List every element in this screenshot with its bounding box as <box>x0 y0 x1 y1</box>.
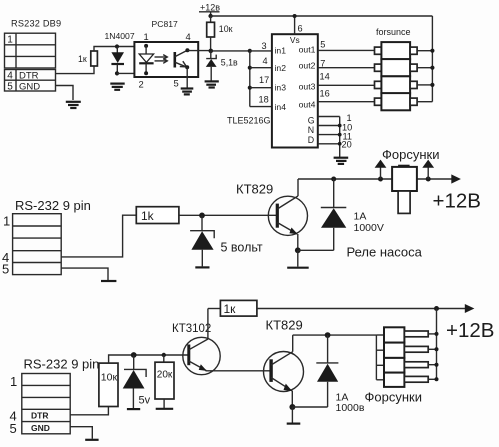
zener VD2 5.1v <box>206 51 217 81</box>
node dot Q3 emitter <box>289 404 295 410</box>
connector X3 RS-232 <box>10 374 71 436</box>
svg-text:2: 2 <box>139 79 144 90</box>
svg-text:10к: 10к <box>219 24 233 34</box>
svg-text:1к: 1к <box>224 302 237 316</box>
node dot rail bottom <box>434 306 439 311</box>
svg-text:out1: out1 <box>299 45 316 55</box>
node dot zener3 <box>199 213 205 219</box>
wire out3 <box>318 84 375 86</box>
svg-text:RS232 DB9: RS232 DB9 <box>11 19 61 29</box>
svg-text:5: 5 <box>2 261 9 276</box>
svg-text:1k: 1k <box>141 209 155 223</box>
wire out1 <box>318 49 375 51</box>
injector bank bottom left bus <box>375 335 377 380</box>
svg-text:1N4007: 1N4007 <box>105 31 135 41</box>
node dot Q1 emitter <box>295 247 301 253</box>
node dot B4 <box>435 377 439 381</box>
arrow up right of relay <box>422 160 434 179</box>
wire in1 stub <box>250 50 272 52</box>
svg-text:4: 4 <box>186 31 191 42</box>
injector F4 <box>375 93 433 110</box>
svg-text:1к: 1к <box>78 54 87 64</box>
wire U1 collector out pin4 <box>187 50 211 52</box>
injector F1 <box>375 42 433 59</box>
wire GND pin5 <box>56 86 74 101</box>
node dot relay left <box>378 177 383 182</box>
svg-text:4: 4 <box>263 56 268 66</box>
diode VD4 1A 1000V <box>321 179 347 250</box>
node dot pin6 <box>293 14 297 18</box>
wire node to PC817 pin2 <box>117 72 146 74</box>
U1 phototransistor <box>175 48 190 69</box>
wire emitter to VD4 <box>298 249 334 251</box>
injector B4 <box>376 373 436 387</box>
wire GND stub1 <box>318 116 340 118</box>
svg-text:PC817: PC817 <box>152 19 178 29</box>
wire R1 top to node <box>94 47 146 52</box>
optocoupler U1 PC817 box <box>134 42 198 77</box>
svg-text:1: 1 <box>347 113 352 123</box>
wire GND stub3 <box>318 134 340 136</box>
wire U1 emitter pin5 <box>186 67 188 87</box>
svg-text:in3: in3 <box>275 82 287 92</box>
resistor R5 20k <box>155 355 174 408</box>
svg-text:1A: 1A <box>354 210 367 222</box>
wire R3 to Q1 base <box>179 214 277 216</box>
ground under VD2 <box>205 81 219 87</box>
U1 LED <box>139 44 153 75</box>
svg-text:in1: in1 <box>275 45 287 55</box>
injector bank top right bus <box>431 16 433 102</box>
wire Q1 emitter ground <box>297 250 299 266</box>
resistor R3 1k <box>136 207 179 224</box>
svg-text:+12В: +12В <box>433 190 481 213</box>
node dot VD4 <box>331 177 336 182</box>
node dot VD5 <box>131 352 137 358</box>
injector B2 <box>376 343 436 358</box>
IC U2 TLE5216G box <box>272 34 318 147</box>
wire in bus <box>249 51 251 107</box>
injector B1 <box>376 327 436 342</box>
svg-text:16: 16 <box>320 89 330 99</box>
resistor 1k <box>91 51 98 66</box>
node dot in2 <box>248 66 252 70</box>
svg-text:N: N <box>308 125 314 135</box>
wire pin6 <box>294 16 296 34</box>
svg-text:1: 1 <box>144 31 149 42</box>
svg-text:G: G <box>308 115 315 125</box>
connector X2 RS-232 <box>2 214 61 277</box>
node dot pin10 <box>338 124 342 128</box>
ground VD5 <box>127 408 140 410</box>
svg-text:5v: 5v <box>139 394 151 406</box>
wire in4 stub <box>250 106 272 108</box>
ground X3 pin5 <box>85 439 98 441</box>
wire DTR to R1 <box>56 66 95 74</box>
node dot B2 <box>435 347 439 351</box>
zener VD5 5v <box>123 355 146 408</box>
svg-text:18: 18 <box>259 95 269 105</box>
svg-text:RS-232 9 pin: RS-232 9 pin <box>15 198 91 213</box>
svg-text:1: 1 <box>10 374 17 389</box>
wire in2 stub <box>250 67 272 69</box>
svg-text:RS-232 9 pin: RS-232 9 pin <box>24 356 100 371</box>
svg-text:in2: in2 <box>275 63 287 73</box>
wire X2 pin4 to R3 <box>61 215 136 257</box>
svg-text:1000в: 1000в <box>336 402 365 414</box>
wire +12 rail middle <box>298 178 459 180</box>
wire +12 rail bottom <box>257 308 473 310</box>
svg-text:DTR: DTR <box>19 71 39 82</box>
svg-text:Форсунки: Форсунки <box>365 389 422 404</box>
node dot D1 anode <box>115 44 119 48</box>
zener VD3 5V <box>190 215 214 266</box>
ground U2 <box>334 158 349 164</box>
node dot zener top <box>209 49 214 54</box>
transistor Q3 KT829 <box>264 335 304 407</box>
svg-text:5: 5 <box>7 81 13 92</box>
svg-text:5 вольт: 5 вольт <box>221 240 263 254</box>
diode VD6 1A 1000v <box>316 335 338 407</box>
wire in3 stub <box>250 87 272 89</box>
ground X2 pin5 <box>101 280 116 282</box>
svg-text:Vs: Vs <box>290 35 300 45</box>
node dot B1 <box>435 332 439 336</box>
resistor R4 10k <box>99 363 118 406</box>
svg-text:КТ829: КТ829 <box>266 317 303 332</box>
ground R5 <box>156 408 174 410</box>
node dot in1 <box>248 49 252 53</box>
node dot F2 <box>430 66 434 70</box>
wire GND stub4 <box>318 143 340 145</box>
svg-text:GND: GND <box>19 81 40 92</box>
arrowhead rail bottom <box>465 304 475 313</box>
svg-text:14: 14 <box>320 72 330 82</box>
svg-text:5: 5 <box>174 78 179 89</box>
wire X2 pin5 to ground <box>61 268 108 280</box>
wire out4 <box>318 101 375 103</box>
svg-text:out2: out2 <box>299 60 316 70</box>
injector F3 <box>375 76 433 93</box>
injector F2 <box>375 59 433 76</box>
wire emitter to VD6 <box>292 406 327 408</box>
wire out2 <box>318 67 375 69</box>
svg-text:in4: in4 <box>275 102 287 112</box>
ground under DB9 <box>66 102 81 108</box>
transistor Q1 KT829 <box>268 179 307 250</box>
relay K1 pump <box>392 165 417 214</box>
svg-text:Реле насоса: Реле насоса <box>347 244 423 259</box>
arrowhead rail middle <box>451 174 461 183</box>
connector X1 RS232 DB9 <box>5 33 56 92</box>
svg-text:Форсунки: Форсунки <box>382 147 439 162</box>
wire GND stub2 <box>318 125 340 127</box>
wire X3 pin4 to R4 <box>70 407 108 415</box>
injector bank bottom right bus <box>436 309 438 380</box>
U1 light arrows <box>155 55 168 64</box>
node dot pin20 <box>338 142 342 146</box>
svg-text:forsunce: forsunce <box>376 27 411 37</box>
node dot D1 cathode <box>115 71 119 75</box>
svg-text:7: 7 <box>320 58 325 68</box>
svg-text:1: 1 <box>3 214 10 229</box>
svg-text:КТ829: КТ829 <box>236 181 273 196</box>
svg-text:10к: 10к <box>101 371 118 383</box>
wire Q3 emitter ground <box>291 407 293 423</box>
wire GND bus <box>339 117 341 158</box>
svg-text:5: 5 <box>320 40 325 50</box>
node dot relay right <box>426 177 431 182</box>
ground U1 pin5 <box>181 89 194 95</box>
svg-text:5,1в: 5,1в <box>221 58 238 68</box>
svg-text:6: 6 <box>298 23 303 33</box>
ground Q1 <box>287 267 309 269</box>
wire X3 pin5 to ground <box>70 427 92 439</box>
svg-text:5: 5 <box>10 421 17 436</box>
node dot R5 <box>162 353 166 357</box>
node dot F3 <box>430 83 434 87</box>
ground VD3 <box>195 266 209 268</box>
arrow up left of relay <box>375 160 387 179</box>
ground under D1 <box>110 84 124 90</box>
svg-text:20к: 20к <box>157 369 173 380</box>
svg-text:1000V: 1000V <box>354 222 384 234</box>
injector B3 <box>376 358 436 373</box>
svg-text:3: 3 <box>262 41 267 51</box>
wire +12 top rail <box>211 15 433 17</box>
label +12v top <box>199 2 220 16</box>
node dot +12 rail left <box>208 14 212 18</box>
svg-text:out4: out4 <box>299 100 316 110</box>
node dot VD6 <box>325 332 331 338</box>
resistor R6 1k <box>220 300 257 316</box>
wire R4 top to Q2 base <box>109 355 189 363</box>
svg-text:4: 4 <box>7 71 13 82</box>
svg-text:DTR: DTR <box>31 411 48 421</box>
wire Q3 collector to injectors <box>293 334 377 336</box>
node dot in3 <box>248 86 252 90</box>
svg-text:+12В: +12В <box>446 319 494 342</box>
svg-text:GND: GND <box>31 423 50 433</box>
transistor Q2 KT3102 <box>183 309 271 375</box>
wire Q2 collector to R6 <box>208 308 221 310</box>
svg-text:TLE5216G: TLE5216G <box>227 116 271 126</box>
node dot B3 <box>435 363 439 367</box>
ground Q3 <box>287 423 301 425</box>
svg-text:+12в: +12в <box>200 2 220 12</box>
svg-text:D: D <box>308 135 314 145</box>
wire node to in-bus <box>211 50 250 52</box>
svg-text:1: 1 <box>7 35 13 46</box>
resistor R2 10k <box>207 16 215 51</box>
svg-text:КТ3102: КТ3102 <box>172 323 211 335</box>
svg-text:20: 20 <box>342 139 352 149</box>
svg-text:out3: out3 <box>299 82 316 92</box>
diode D1 1N4007 <box>111 47 124 74</box>
node dot F1 <box>430 49 434 53</box>
svg-text:17: 17 <box>259 75 269 85</box>
node dot pin11 <box>338 133 342 137</box>
